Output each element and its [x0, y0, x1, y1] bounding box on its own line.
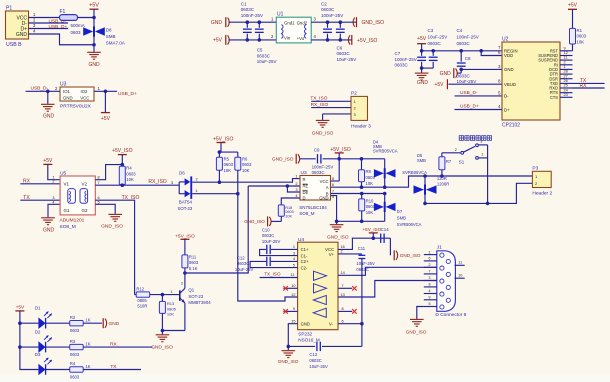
capacitor C8 [460, 51, 462, 62]
CP2102 pin 2 [560, 64, 573, 66]
wire RXD to RX [573, 87, 605, 89]
ground GND_ISO under Q1 [161, 331, 163, 335]
svg-text:10uF-25V: 10uF-25V [457, 79, 477, 84]
svg-text:24: 24 [564, 88, 568, 92]
resistor R18 [278, 205, 284, 216]
junction [121, 183, 125, 187]
wire R3 to RX [83, 346, 152, 348]
svg-text:26: 26 [564, 79, 568, 83]
wire C14 to GND_ISO port [389, 238, 391, 255]
resistor R4 [119, 166, 125, 184]
J1 pin 9 [424, 299, 437, 301]
svg-text:C14: C14 [381, 227, 390, 232]
svg-text:TX: TX [110, 364, 117, 370]
capacitor C3 [432, 51, 434, 56]
junction [372, 236, 376, 240]
capacitor C14 [380, 234, 382, 243]
svg-text:C2-: C2- [301, 265, 308, 270]
pin 3 [29, 28, 69, 30]
svg-text:USB_D+: USB_D+ [49, 24, 68, 30]
wire TXD to TX [573, 82, 605, 84]
svg-text:7: 7 [342, 284, 344, 288]
svg-text:10: 10 [291, 284, 295, 288]
svg-text:+5V_ISO: +5V_ISO [175, 233, 195, 239]
svg-text:GND: GND [43, 227, 55, 233]
svg-text:10uF-25V: 10uF-25V [356, 261, 375, 266]
svg-text:GND: GND [109, 321, 120, 327]
resistor R13 [161, 295, 163, 302]
svg-text:10uF-25V: 10uF-25V [428, 34, 448, 39]
J1 pin 7 [424, 273, 437, 275]
svg-text:10uF-25V: 10uF-25V [337, 57, 357, 62]
svg-text:10uF-25V: 10uF-25V [262, 239, 281, 244]
svg-text:VDD: VDD [504, 53, 513, 58]
svg-text:R2: R2 [70, 315, 76, 320]
svg-text:+5V: +5V [213, 38, 223, 44]
svg-text:13: 13 [341, 293, 345, 297]
svg-text:GND_ISO: GND_ISO [272, 156, 294, 162]
svg-text:TX_ISO: TX_ISO [264, 272, 281, 277]
svg-text:+5V: +5V [417, 36, 427, 42]
pin 2 [29, 22, 69, 24]
resistor R12 [135, 294, 137, 296]
junction [121, 163, 125, 167]
svg-text:27: 27 [564, 74, 568, 78]
svg-text:0603C: 0603C [241, 7, 255, 12]
wire RE DE node to Q1 collector [185, 186, 248, 273]
power port GND_ISO right of C14 [393, 250, 395, 260]
svg-text:GND_ISO: GND_ISO [101, 223, 123, 229]
svg-text:RX: RX [580, 83, 588, 89]
svg-text:GND_ISO: GND_ISO [406, 329, 427, 334]
svg-text:C2+: C2+ [301, 259, 309, 264]
ground GND_ISO under P2 wire [322, 114, 324, 120]
svg-text:0603: 0603 [70, 328, 80, 333]
svg-text:11: 11 [564, 56, 568, 60]
wire D1 to R2 [46, 322, 70, 324]
pin 10 unused [283, 287, 297, 289]
svg-text:6: 6 [332, 183, 334, 187]
svg-text:C6: C6 [337, 45, 343, 50]
svg-text:10K: 10K [242, 168, 250, 173]
wire GND to U1 pin 1 [229, 21, 277, 23]
svg-text:1: 1 [196, 189, 198, 193]
TVS diode D7 [384, 194, 386, 203]
svg-text:GND_ISO: GND_ISO [312, 130, 334, 136]
power port +5V_ISO right of U1 [351, 35, 353, 45]
junction [46, 90, 50, 94]
capacitor C1 [246, 22, 248, 28]
resistor R6 [237, 152, 239, 157]
wire U3 pin 1 to USB_D+ [94, 90, 117, 92]
svg-text:GND_ISO: GND_ISO [327, 235, 349, 241]
capacitor C9 [300, 158, 316, 160]
svg-text:SMB: SMB [106, 34, 116, 39]
svg-text:SO8_M: SO8_M [299, 211, 315, 216]
svg-text:C8: C8 [465, 56, 471, 61]
wire row D2 [20, 346, 39, 348]
svg-text:C1+: C1+ [301, 247, 309, 252]
svg-text:ADUM1201: ADUM1201 [60, 217, 85, 223]
svg-text:P2: P2 [351, 91, 357, 97]
svg-text:G2: G2 [82, 208, 89, 213]
svg-text:GND: GND [88, 62, 100, 68]
svg-text:8: 8 [342, 307, 344, 311]
wire A line to P3 [331, 176, 533, 187]
svg-text:12: 12 [564, 51, 568, 55]
svg-text:SVRB05VCA: SVRB05VCA [373, 149, 398, 154]
wire U5 pin 8 to +5V_ISO [95, 165, 122, 180]
wire TX_ISO to P2 pin 1 [311, 100, 351, 102]
ground GND_ISO under SP232 [287, 346, 289, 350]
svg-text:A: A [326, 185, 329, 190]
svg-text:100nF-25V: 100nF-25V [321, 13, 343, 18]
svg-text:C1-: C1- [301, 253, 308, 258]
resistor R5 [218, 152, 220, 157]
svg-text:10K: 10K [285, 214, 292, 218]
svg-text:GND_ISO: GND_ISO [362, 20, 385, 26]
J1 shell pin 11 [455, 264, 465, 266]
J1 pin 1 [424, 254, 437, 256]
svg-text:D+: D+ [504, 107, 510, 112]
wire D2 to R3 [46, 346, 70, 348]
svg-text:10K: 10K [577, 40, 585, 45]
svg-text:Gnd2: Gnd2 [297, 21, 308, 26]
TVS diode D4 [384, 159, 386, 170]
J1 pin 5 [424, 306, 437, 308]
wire V+ pin 2 to C11 [338, 253, 362, 255]
CP2102 pin 9 [560, 50, 573, 52]
CP2102 pin 1 [560, 68, 573, 70]
svg-text:U2: U2 [502, 36, 509, 42]
svg-text:+5V: +5V [16, 304, 25, 310]
svg-text:V2: V2 [82, 181, 88, 186]
svg-text:MMBT3904: MMBT3904 [188, 300, 211, 305]
svg-text:PRTR5V0U2X: PRTR5V0U2X [60, 104, 92, 110]
svg-text:4: 4 [52, 201, 54, 205]
svg-text:V+: V+ [329, 252, 335, 257]
svg-text:C13: C13 [309, 352, 317, 357]
svg-text:0603C: 0603C [237, 261, 249, 266]
wire switch to P3 pin 2 line [487, 145, 489, 204]
svg-text:R4: R4 [70, 361, 76, 366]
svg-text:2: 2 [341, 250, 343, 254]
ground GND_ISO under U5 [108, 213, 122, 215]
svg-text:+5V_ISO: +5V_ISO [363, 227, 382, 232]
svg-text:D: D [303, 195, 306, 200]
svg-text:VBUD: VBUD [504, 82, 516, 87]
svg-text:120R: 120R [437, 176, 447, 181]
svg-text:S1: S1 [459, 159, 465, 164]
capacitor C11 [359, 254, 366, 256]
svg-text:0603C: 0603C [428, 41, 442, 46]
svg-text:7: 7 [332, 189, 334, 193]
wire USB_D- to U3 pin 2 [26, 90, 61, 92]
wire D6 pin 2 to SN75 R pin [192, 179, 300, 183]
svg-text:10K: 10K [224, 168, 232, 173]
svg-text:R8: R8 [366, 169, 372, 174]
wire B line [331, 193, 385, 195]
wire VCC pin 16 to +5V_ISO [338, 238, 390, 249]
svg-text:C11: C11 [358, 246, 366, 251]
transistor Q1 MMBT3904 [179, 290, 181, 301]
svg-text:1: 1 [564, 65, 566, 69]
svg-text:+5V: +5V [43, 158, 53, 164]
svg-text:510R: 510R [137, 304, 147, 309]
ground GND under U5 [41, 217, 55, 219]
svg-text:100nF-25V: 100nF-25V [241, 13, 263, 18]
wire U1 pin 4 to +5V_ISO [311, 39, 351, 41]
svg-text:9: 9 [293, 307, 295, 311]
svg-text:5.1K: 5.1K [189, 266, 198, 271]
svg-text:0603: 0603 [126, 171, 136, 176]
junction [92, 16, 96, 20]
wire D3 to R4 [46, 369, 70, 371]
wire V- pin 6 [338, 323, 362, 325]
wire DE jog [287, 186, 300, 192]
resistor R4 led [70, 367, 84, 372]
svg-text:0603C: 0603C [262, 233, 274, 238]
svg-text:SMB: SMB [397, 215, 406, 220]
svg-text:10K: 10K [126, 177, 134, 182]
svg-text:1K: 1K [85, 342, 90, 347]
svg-text:D3: D3 [35, 352, 41, 357]
wire R4 to TX [83, 369, 141, 371]
svg-text:2: 2 [196, 177, 198, 181]
svg-text:3: 3 [296, 188, 298, 192]
J1 pin 8 [424, 286, 437, 288]
junction [104, 90, 108, 94]
CP2102 pin 25 [560, 87, 573, 89]
CP2102 pin 23 [560, 96, 573, 98]
svg-text:RX: RX [110, 342, 117, 348]
svg-text:23: 23 [564, 93, 568, 97]
svg-text:6: 6 [342, 319, 344, 323]
svg-text:3: 3 [480, 140, 482, 144]
svg-text:C9: C9 [314, 148, 320, 153]
svg-text:1: 1 [429, 250, 431, 254]
svg-text:D7: D7 [397, 209, 403, 214]
svg-text:0603: 0603 [242, 162, 252, 167]
svg-text:0603C: 0603C [457, 41, 471, 46]
svg-text:CTS: CTS [550, 95, 558, 100]
svg-text:GND_ISO: GND_ISO [400, 253, 421, 258]
wire GND_ISO rail under SN75 [337, 220, 385, 222]
wire USB_D+ to D+ [455, 109, 503, 111]
resistor R3 [70, 344, 84, 349]
svg-text:TX_ISO: TX_ISO [122, 195, 140, 201]
svg-text:0603C: 0603C [395, 63, 409, 68]
wire U5 pin 5 to GND_ISO [95, 204, 115, 214]
svg-text:100nF-25V: 100nF-25V [457, 34, 479, 39]
svg-text:SMB: SMB [417, 158, 426, 163]
svg-text:P3: P3 [532, 166, 538, 172]
wire U5 pin 4 to GND [48, 204, 60, 217]
CP2102 pin 26 [560, 82, 573, 84]
svg-text:D6: D6 [179, 170, 185, 175]
svg-text:0603C: 0603C [321, 7, 335, 12]
svg-text:12: 12 [291, 293, 295, 297]
ground GND_ISO under J1 [410, 318, 424, 320]
svg-text:D-: D- [504, 94, 509, 99]
svg-text:3: 3 [293, 251, 295, 255]
svg-text:10uF-25V: 10uF-25V [309, 364, 328, 369]
power port +5V below U3 [104, 91, 106, 112]
resistor R7 [441, 153, 443, 157]
resistor R8 [361, 159, 363, 170]
wire TX_ISO to pin 11 [260, 277, 298, 279]
svg-text:8: 8 [429, 283, 431, 287]
svg-text:0603: 0603 [70, 375, 80, 380]
svg-text:D Connector 9: D Connector 9 [435, 312, 466, 318]
wire U1 pin 3 to GND_ISO [311, 21, 356, 23]
CP2102 pin 24 [560, 92, 573, 94]
pin 7 unused [338, 287, 352, 289]
wire RX_ISO row [95, 184, 179, 186]
svg-text:7: 7 [429, 270, 431, 274]
wire LED rail [20, 311, 39, 370]
svg-text:4: 4 [293, 257, 295, 261]
svg-text:USB_D+: USB_D+ [460, 103, 479, 109]
svg-text:25: 25 [564, 84, 568, 88]
capacitor C12 [271, 260, 298, 262]
svg-text:J1: J1 [437, 244, 442, 250]
wire J1 pin 5 to GND_ISO [417, 307, 424, 319]
svg-text:15: 15 [291, 319, 295, 323]
svg-text:C5: C5 [257, 48, 263, 53]
svg-text:0603: 0603 [577, 34, 587, 39]
resistor R10 [361, 194, 363, 199]
svg-text:500mA: 500mA [71, 23, 85, 28]
svg-text:R6: R6 [242, 156, 248, 161]
wire gnd to C13 to V- [288, 345, 315, 347]
wire RX_ISO to P2 pin 2 [311, 107, 351, 109]
svg-text:+5V_ISO: +5V_ISO [330, 147, 351, 153]
svg-text:R4: R4 [126, 166, 132, 171]
pin 1 [29, 17, 60, 19]
svg-text:5: 5 [429, 302, 431, 306]
svg-text:8: 8 [98, 175, 100, 179]
svg-text:1K: 1K [85, 364, 90, 369]
wire R1IN pin 13 to DB9 pin 3 [338, 281, 437, 298]
power port GND_ISO right of U1 [356, 17, 358, 27]
svg-text:G1: G1 [64, 208, 71, 213]
resistor R2 [70, 321, 84, 326]
power port GND at R2 [102, 318, 104, 328]
capacitor C2 [327, 22, 329, 28]
svg-text:SOT-23: SOT-23 [178, 206, 193, 211]
junction [420, 49, 424, 53]
svg-text:D2: D2 [35, 329, 41, 334]
svg-text:14: 14 [341, 271, 345, 275]
svg-text:BAT54: BAT54 [179, 200, 193, 205]
ground GND under C7 [415, 72, 429, 74]
svg-text:10K: 10K [366, 181, 374, 186]
svg-text:1: 1 [293, 245, 295, 249]
ground GND_ISO under SN75 [330, 224, 344, 226]
svg-text:USB_D+: USB_D+ [118, 91, 137, 97]
svg-text:16: 16 [341, 245, 345, 249]
J1 shell pin 10 [455, 277, 465, 279]
svg-text:10K: 10K [366, 210, 374, 215]
svg-text:10uF-25V: 10uF-25V [257, 59, 277, 64]
TVS diode D5 [424, 176, 426, 185]
svg-text:11: 11 [291, 273, 295, 277]
svg-text:+5V: +5V [89, 2, 99, 8]
svg-text:+5V_ISO: +5V_ISO [213, 136, 234, 142]
svg-text:0603: 0603 [71, 30, 82, 35]
capacitor C10 [271, 248, 298, 250]
svg-text:2: 2 [455, 148, 457, 152]
svg-text:C3: C3 [428, 28, 434, 33]
svg-text:GND: GND [43, 114, 55, 120]
wire T1OUT pin 14 to DB9 pin 2 [338, 267, 437, 275]
J1 pin 2 [424, 266, 437, 268]
svg-text:SP232: SP232 [298, 331, 312, 336]
wire F1 to +5V node [78, 17, 95, 19]
TVS diode D8 [93, 18, 95, 28]
J1 pin 4 [424, 293, 437, 295]
svg-text:0603: 0603 [189, 260, 199, 265]
wire USB GND to node [29, 34, 95, 45]
svg-text:C7: C7 [395, 51, 401, 56]
svg-text:SOT-23: SOT-23 [188, 294, 203, 299]
svg-text:5: 5 [332, 195, 334, 199]
wire C3 to ground [422, 67, 434, 69]
svg-text:GND_ISO: GND_ISO [278, 359, 299, 364]
svg-text:0603: 0603 [224, 162, 234, 167]
svg-text:Vin: Vin [284, 36, 291, 41]
pin 8 unused [338, 310, 352, 312]
svg-text:USB B: USB B [6, 42, 22, 48]
CP2102 pin 27 [560, 78, 573, 80]
svg-text:1206R: 1206R [437, 182, 449, 187]
svg-text:USB_D-: USB_D- [460, 90, 478, 96]
svg-text:GND: GND [417, 80, 429, 86]
svg-text:SMA7.0A: SMA7.0A [106, 41, 125, 46]
svg-text:0805: 0805 [137, 298, 147, 303]
svg-text:TX_ISO: TX_ISO [310, 96, 327, 102]
junction [337, 157, 341, 161]
svg-text:Gnd1: Gnd1 [284, 21, 295, 26]
svg-text:C10: C10 [262, 227, 270, 232]
svg-text:C4: C4 [457, 28, 463, 33]
svg-text:GND: GND [63, 95, 73, 100]
wire +5V to U1 pin 2 [229, 39, 277, 41]
wire CP2102 GND pin 3 [461, 68, 502, 70]
svg-text:10uF-25V: 10uF-25V [235, 267, 254, 272]
svg-text:GND: GND [504, 67, 514, 72]
svg-text:R7: R7 [446, 159, 452, 164]
svg-text:+Vo: +Vo [297, 36, 305, 41]
wire +5V_ISO rail [338, 153, 340, 181]
svg-text:7: 7 [98, 181, 100, 185]
svg-text:100nF-25V: 100nF-25V [312, 164, 334, 169]
svg-text:R5: R5 [224, 156, 230, 161]
svg-text:C2: C2 [321, 1, 327, 6]
svg-text:VCC: VCC [320, 179, 329, 184]
svg-text:GND: GND [440, 71, 452, 77]
svg-text:R3: R3 [70, 339, 76, 344]
wire +5V to pin 1 [48, 164, 60, 179]
pin 9 unused [283, 310, 297, 312]
label toggle switch chinese [459, 136, 463, 141]
svg-text:IO1: IO1 [63, 89, 71, 94]
svg-text:SVRB05VCA: SVRB05VCA [402, 170, 427, 175]
svg-text:5: 5 [293, 263, 295, 267]
svg-text:SO8_M: SO8_M [60, 224, 76, 230]
svg-text:D8: D8 [106, 28, 112, 33]
